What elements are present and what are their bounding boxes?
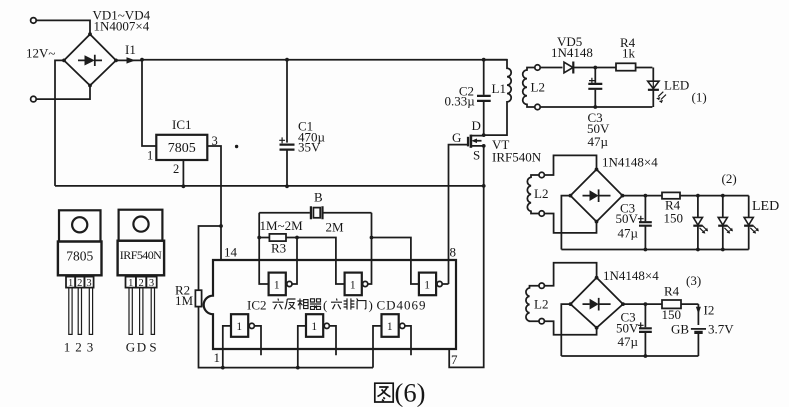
- svg-text:1M~2M: 1M~2M: [260, 218, 304, 233]
- stray dot: [235, 145, 238, 148]
- svg-text:150: 150: [664, 211, 684, 226]
- LED A circuit2: [693, 196, 708, 250]
- junction bridge3 right: [621, 302, 625, 306]
- wire R2 bottom to input rail: [199, 307, 374, 368]
- wire circuit1 top from terminal: [540, 67, 562, 69]
- svg-text:1: 1: [214, 350, 221, 365]
- resistor R4 circuit3: [662, 300, 698, 308]
- svg-text:): ): [369, 298, 373, 313]
- junction bridge2 top: [595, 168, 599, 172]
- wire IC1 pin3 to IC2 pin14: [207, 146, 221, 260]
- junction LED2 bottom circuit2: [721, 248, 725, 252]
- svg-text:2M: 2M: [326, 220, 345, 235]
- junction source node: [482, 144, 486, 148]
- inductor L2 secondary circuit 1: [523, 68, 535, 108]
- svg-text:(1): (1): [692, 90, 707, 105]
- svg-text:50V: 50V: [616, 211, 639, 226]
- bridge rectifier circuit3 diamond: [571, 278, 624, 328]
- wire inv1 output to inv2 input: [292, 238, 345, 285]
- junction bridge left vertex: [62, 59, 66, 63]
- wire gate to IC2 pin8: [449, 145, 469, 284]
- junction bridge top vertex: [88, 32, 92, 36]
- diode inside bridge circuit3: [583, 298, 611, 311]
- package IRF540N hole: [133, 217, 148, 232]
- diode symbol inside bridge: [78, 55, 102, 66]
- junction bridge2 left: [569, 194, 573, 198]
- wire bridge3 left to bottom rail: [561, 304, 570, 356]
- junction C3 bottom circuit1: [593, 105, 597, 109]
- inverter U4: [223, 314, 261, 367]
- svg-text:1: 1: [236, 321, 242, 333]
- junction +5V branch R2: [219, 224, 223, 228]
- svg-text:47µ: 47µ: [588, 134, 609, 149]
- package 7805 hole: [72, 217, 87, 232]
- svg-text:2: 2: [75, 340, 82, 355]
- LED C circuit2: [744, 196, 759, 250]
- capacitor C2: [477, 60, 491, 135]
- inverter U6: [373, 314, 411, 367]
- svg-text:150: 150: [662, 307, 682, 322]
- junction bridge bottom vertex: [88, 84, 92, 88]
- svg-text:G: G: [126, 340, 135, 355]
- junction LED1 bottom circuit2: [696, 248, 700, 252]
- terminal L2-1 top: [535, 65, 540, 70]
- diode VD5: [564, 62, 616, 74]
- resistor R4 circuit2: [662, 192, 749, 198]
- svg-text:L2: L2: [534, 297, 548, 312]
- junction bridge2 bottom: [595, 220, 599, 224]
- svg-text:1N4148: 1N4148: [551, 45, 593, 60]
- package IRF540N legs: [129, 288, 155, 335]
- svg-text:L1: L1: [492, 81, 506, 96]
- wire circuit3 bottom rail: [561, 355, 698, 357]
- resistor R3: [259, 234, 297, 241]
- wire circuit2 bottom rail: [561, 249, 748, 251]
- svg-text:12V~: 12V~: [26, 46, 55, 61]
- svg-text:(: (: [323, 298, 327, 313]
- terminal circuit3 bottom: [539, 319, 544, 324]
- terminal circuit2 bottom: [539, 211, 544, 216]
- terminal L2-1 bottom: [535, 104, 540, 109]
- svg-text:IC2: IC2: [247, 298, 267, 313]
- svg-text:1N4148×4: 1N4148×4: [602, 155, 658, 170]
- junction C2 top: [482, 58, 486, 62]
- svg-text:G: G: [452, 130, 461, 145]
- bridge rectifier VD1-VD4 diamond: [64, 34, 116, 85]
- junction bridge2 right: [621, 194, 625, 198]
- svg-text:7: 7: [451, 352, 458, 367]
- wire circuit3 bottom terminal to bridge: [544, 321, 596, 335]
- op IC2 package outline: [204, 260, 456, 349]
- wire bridge2 right output: [623, 195, 663, 197]
- wire bridge2 left to bottom rail: [561, 196, 570, 250]
- wire circuit2 top terminal to bridge: [544, 155, 596, 175]
- wire node C crystal to inv2 out inv3 in: [368, 213, 419, 284]
- wire R2 top branch: [199, 226, 222, 290]
- junction node C: [370, 236, 374, 240]
- svg-text:S: S: [149, 340, 156, 355]
- junction C3 bottom circuit2: [644, 248, 648, 252]
- junction C1 top: [285, 58, 289, 62]
- terminal circuit2 top: [539, 172, 544, 177]
- battery GB: [691, 329, 706, 356]
- wire IC1 pin1: [142, 60, 156, 146]
- svg-text:CD4069: CD4069: [377, 298, 426, 313]
- wire battery branch with I2 arrow: [696, 304, 701, 325]
- svg-text:S: S: [473, 148, 480, 163]
- capacitor C3 circuit2: [638, 196, 652, 250]
- svg-text:IRF540N: IRF540N: [492, 150, 542, 165]
- junction C3 bottom circuit3: [644, 354, 648, 358]
- junction C3 top circuit3: [644, 302, 648, 306]
- resistor R4 circuit1: [616, 63, 652, 70]
- svg-text:47µ: 47µ: [618, 226, 639, 241]
- svg-text:2: 2: [173, 162, 179, 176]
- svg-text:(3): (3): [686, 273, 701, 288]
- wire IC1 pin2 to ground: [182, 160, 184, 186]
- junction LED2 top circuit2: [721, 194, 725, 198]
- svg-text:3: 3: [212, 134, 218, 148]
- wire node I1 with arrow: [116, 57, 142, 63]
- svg-text:1: 1: [311, 321, 317, 333]
- LED circuit1: [648, 68, 666, 108]
- svg-text:1: 1: [64, 340, 71, 355]
- wire bridge3 right output: [623, 303, 662, 305]
- svg-text:(2): (2): [722, 171, 737, 186]
- svg-text:1: 1: [387, 321, 393, 333]
- caption figure 6: [375, 378, 426, 407]
- junction bridge3 left: [569, 302, 573, 306]
- inverter U1: [269, 273, 292, 296]
- wire ground rail: [55, 185, 484, 187]
- package 7805 body: [58, 242, 102, 276]
- svg-text:R4: R4: [664, 284, 680, 299]
- svg-text:35V: 35V: [298, 140, 321, 155]
- terminal circuit3 top: [539, 283, 544, 288]
- wire bridge left vertex to ground rail: [55, 60, 64, 185]
- capacitor C3 circuit3: [638, 304, 652, 356]
- svg-text:1k: 1k: [622, 46, 636, 61]
- package IRF540N body: [118, 241, 165, 276]
- svg-text:L2: L2: [531, 80, 545, 95]
- svg-text:3: 3: [87, 340, 94, 355]
- inverter U5: [298, 314, 336, 367]
- package 7805 pin boxes: [66, 277, 94, 289]
- wire node A riser: [259, 213, 268, 284]
- junction bridge3 bottom: [595, 326, 599, 330]
- diode inside bridge circuit2: [583, 189, 611, 202]
- svg-text:8: 8: [450, 245, 457, 260]
- svg-text:D: D: [137, 340, 146, 355]
- svg-text:I1: I1: [125, 42, 136, 57]
- svg-text:1: 1: [424, 280, 430, 292]
- LED B circuit2: [718, 196, 733, 250]
- wire bottom terminal to bridge: [36, 86, 90, 100]
- wire circuit2 bottom terminal to bridge: [544, 214, 596, 233]
- junction R3 left: [257, 236, 261, 240]
- junction bridge right vertex: [114, 59, 118, 63]
- junction source ground rail: [482, 184, 486, 188]
- inverter U3: [419, 273, 449, 296]
- svg-text:IRF540N: IRF540N: [120, 248, 162, 262]
- svg-text:1: 1: [274, 280, 280, 292]
- svg-text:L2: L2: [534, 186, 548, 201]
- junction pin2 ground: [182, 184, 186, 188]
- junction R3 right: [295, 236, 299, 240]
- inductor L2 circuit3: [526, 286, 539, 322]
- inductor L1 primary: [484, 60, 512, 135]
- label IC2 hex inverter CD4069: [247, 298, 426, 313]
- junction C3 top circuit2: [644, 194, 648, 198]
- svg-text:1N4007×4: 1N4007×4: [94, 19, 150, 34]
- svg-text:0.33µ: 0.33µ: [445, 94, 476, 109]
- junction inv4 input: [221, 366, 225, 370]
- svg-text:R3: R3: [271, 241, 286, 256]
- svg-text:1: 1: [350, 280, 356, 292]
- svg-text:(6): (6): [395, 378, 426, 407]
- terminal input top: [31, 18, 37, 24]
- bridge rectifier circuit2 diamond: [570, 169, 622, 221]
- svg-text:14: 14: [224, 245, 238, 260]
- svg-text:LED: LED: [664, 78, 689, 93]
- svg-text:I2: I2: [704, 303, 715, 318]
- op IC1 7805 box: [156, 135, 207, 160]
- package IRF540N pin boxes: [126, 277, 157, 289]
- junction bridge3 top: [595, 276, 599, 280]
- junction C3 top circuit1: [593, 66, 597, 70]
- wire circuit1 bottom rail: [540, 106, 652, 108]
- wire top supply rail: [142, 59, 507, 61]
- svg-text:1N4148×4: 1N4148×4: [603, 268, 659, 283]
- svg-text:47µ: 47µ: [618, 334, 639, 349]
- crystal B: [259, 206, 371, 219]
- package 7805 legs: [69, 288, 93, 335]
- junction drain node: [482, 133, 486, 137]
- wire source down to pin7 link: [449, 146, 484, 368]
- label legs G D S: [126, 340, 157, 355]
- transistor VT mosfet symbol: [468, 135, 484, 148]
- svg-text:IC1: IC1: [172, 117, 192, 132]
- svg-text:LED: LED: [752, 199, 779, 214]
- junction LED1 top circuit2: [696, 194, 700, 198]
- inverter U2: [345, 273, 368, 296]
- package IRF540N tab: [119, 210, 163, 241]
- resistor R2: [195, 290, 201, 306]
- junction inv5 input: [296, 366, 300, 370]
- label legs 1 2 3: [64, 340, 94, 355]
- junction node I1: [140, 58, 144, 62]
- wire circuit3 top terminal to bridge: [544, 263, 596, 286]
- capacitor C1: [279, 60, 294, 187]
- svg-text:7805: 7805: [168, 141, 196, 156]
- svg-text:7805: 7805: [66, 249, 93, 264]
- svg-text:1: 1: [147, 149, 153, 163]
- svg-text:1M: 1M: [175, 293, 194, 308]
- svg-text:GB: GB: [671, 322, 689, 337]
- svg-text:D: D: [472, 118, 481, 133]
- package 7805 TO-220 tab: [59, 210, 101, 241]
- svg-text:B: B: [314, 190, 323, 205]
- terminal input bottom: [31, 96, 37, 102]
- capacitor C3 circuit1: [588, 68, 602, 108]
- junction C1 bottom: [285, 184, 289, 188]
- svg-text:3.7V: 3.7V: [708, 322, 734, 337]
- inductor L2 circuit2: [527, 175, 539, 214]
- wire top terminal to bridge: [36, 20, 90, 34]
